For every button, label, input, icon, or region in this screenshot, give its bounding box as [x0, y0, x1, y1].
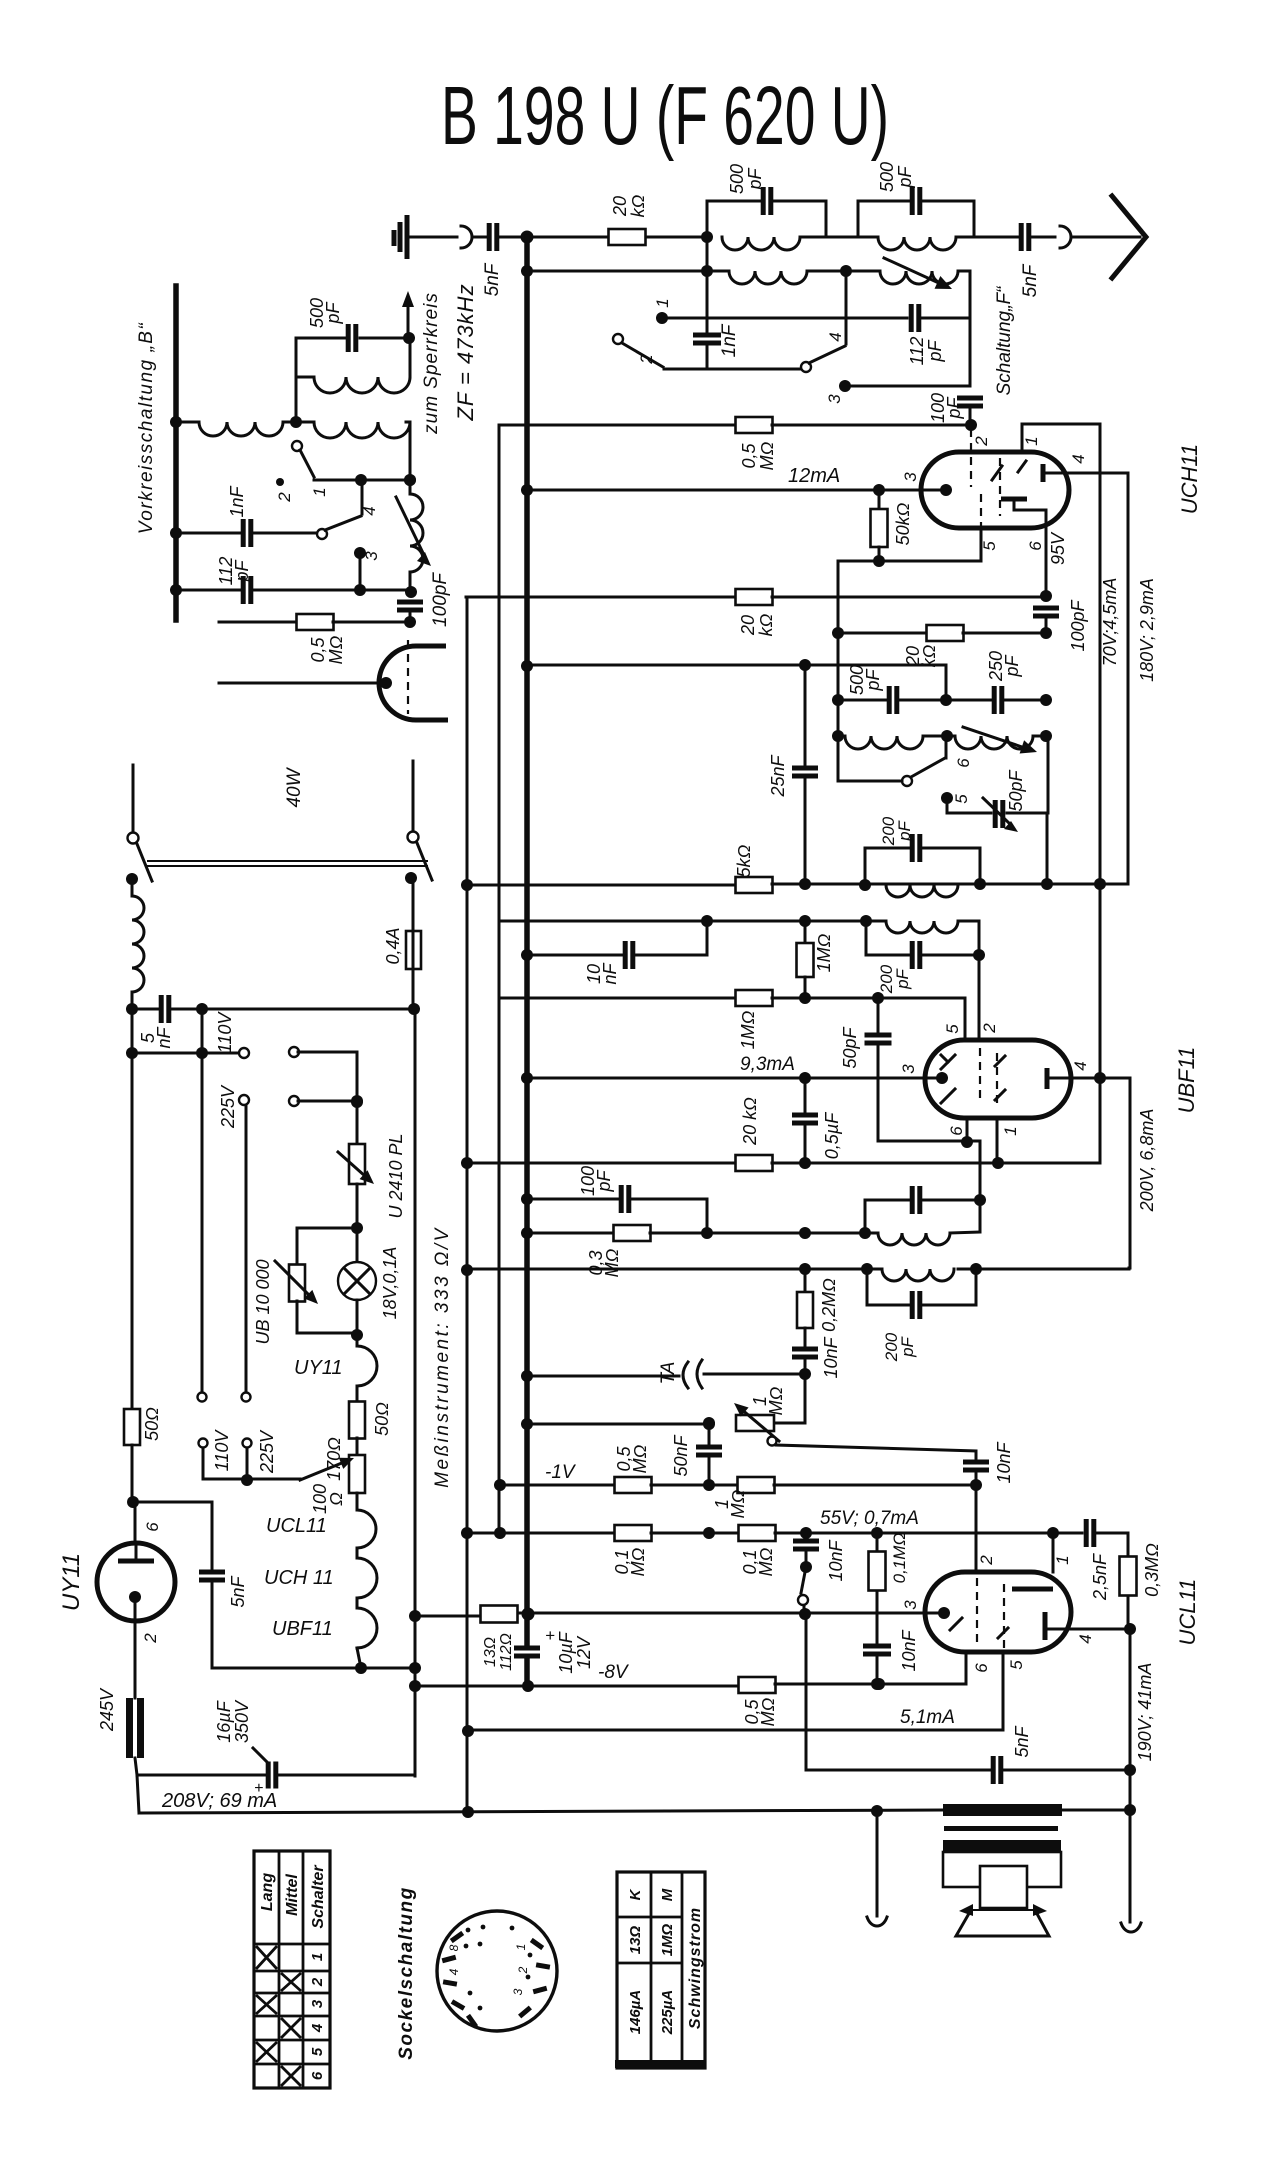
svg-text:pF: pF — [863, 668, 883, 691]
svg-text:16µF: 16µF — [214, 1700, 234, 1742]
svg-text:2,5nF: 2,5nF — [1090, 1553, 1110, 1601]
svg-text:1: 1 — [309, 1953, 326, 1961]
svg-text:Schaltung„F“: Schaltung„F“ — [994, 285, 1015, 395]
svg-text:UCH 11: UCH 11 — [264, 1567, 334, 1589]
svg-text:MΩ: MΩ — [756, 1547, 776, 1576]
svg-text:5nF: 5nF — [482, 262, 503, 296]
svg-text:3: 3 — [309, 1999, 326, 2008]
svg-text:0,1MΩ: 0,1MΩ — [890, 1533, 909, 1584]
svg-text:6: 6 — [143, 1522, 162, 1532]
svg-text:200V, 6,8mA: 200V, 6,8mA — [1137, 1109, 1157, 1213]
svg-text:1MΩ: 1MΩ — [659, 1923, 676, 1956]
svg-text:18V,0,1A: 18V,0,1A — [380, 1247, 400, 1320]
svg-text:12mA: 12mA — [788, 465, 840, 487]
svg-text:MΩ: MΩ — [757, 441, 777, 470]
svg-text:UCL11: UCL11 — [1175, 1579, 1200, 1646]
svg-text:5nF: 5nF — [1012, 1725, 1032, 1757]
svg-text:5kΩ: 5kΩ — [734, 844, 754, 877]
svg-text:112: 112 — [907, 337, 927, 366]
svg-text:0,5µF: 0,5µF — [822, 1112, 842, 1159]
svg-text:2: 2 — [141, 1633, 160, 1644]
svg-text:UCH11: UCH11 — [1177, 444, 1202, 515]
svg-text:pF: pF — [323, 301, 343, 324]
svg-text:20: 20 — [610, 196, 630, 217]
svg-text:70V;4,5mA: 70V;4,5mA — [1100, 578, 1120, 667]
svg-text:MΩ: MΩ — [758, 1697, 778, 1726]
svg-text:4: 4 — [826, 332, 845, 341]
svg-text:225µA: 225µA — [659, 1990, 676, 2036]
svg-text:40W: 40W — [284, 766, 305, 807]
svg-text:4: 4 — [309, 2023, 326, 2033]
svg-text:50pF: 50pF — [1006, 769, 1026, 811]
svg-text:5: 5 — [943, 1024, 962, 1034]
svg-text:95V: 95V — [1048, 531, 1068, 565]
svg-text:MΩ: MΩ — [766, 1386, 786, 1415]
svg-text:0,2MΩ: 0,2MΩ — [819, 1278, 839, 1332]
svg-text:kΩ: kΩ — [756, 613, 776, 636]
svg-text:0,5: 0,5 — [739, 443, 759, 469]
svg-text:3: 3 — [825, 394, 844, 404]
svg-text:+: + — [545, 1626, 555, 1645]
svg-text:245V: 245V — [97, 1687, 117, 1732]
svg-text:B 198 U (F 620 U): B 198 U (F 620 U) — [441, 69, 889, 162]
svg-text:4: 4 — [1076, 1634, 1095, 1643]
svg-text:Ω: Ω — [326, 1492, 346, 1506]
svg-text:0,3MΩ: 0,3MΩ — [1142, 1543, 1162, 1597]
svg-text:1: 1 — [1053, 1555, 1072, 1564]
svg-text:pF: pF — [893, 967, 912, 989]
svg-text:4: 4 — [447, 1968, 461, 1975]
svg-text:5: 5 — [1007, 1660, 1026, 1670]
svg-text:10nF: 10nF — [994, 1441, 1014, 1483]
svg-text:13Ω: 13Ω — [482, 1637, 499, 1667]
svg-text:190V; 41mA: 190V; 41mA — [1135, 1663, 1155, 1762]
svg-text:1: 1 — [514, 1944, 528, 1951]
svg-text:8: 8 — [447, 1944, 461, 1951]
svg-text:3: 3 — [901, 472, 920, 482]
svg-text:2: 2 — [972, 436, 991, 447]
svg-text:10nF: 10nF — [821, 1336, 841, 1378]
svg-text:55V; 0,7mA: 55V; 0,7mA — [820, 1508, 919, 1529]
svg-text:110V: 110V — [212, 1429, 232, 1472]
svg-text:pF: pF — [895, 165, 915, 188]
svg-text:nF: nF — [600, 962, 620, 984]
svg-text:500: 500 — [727, 164, 747, 194]
svg-text:TA: TA — [658, 1362, 679, 1385]
svg-text:UY11: UY11 — [294, 1357, 343, 1379]
svg-text:-1V: -1V — [545, 1462, 577, 1483]
svg-text:Vorkreisschaltung „B“: Vorkreisschaltung „B“ — [136, 322, 157, 535]
svg-text:50nF: 50nF — [671, 1434, 691, 1476]
svg-text:zum Sperrkreis: zum Sperrkreis — [421, 292, 442, 435]
svg-text:MΩ: MΩ — [630, 1444, 650, 1473]
svg-text:MΩ: MΩ — [602, 1248, 622, 1277]
svg-text:pF: pF — [898, 1335, 917, 1357]
svg-text:50Ω: 50Ω — [372, 1402, 392, 1436]
svg-text:pF: pF — [895, 819, 914, 841]
svg-text:Schwingstrom: Schwingstrom — [687, 1907, 704, 2029]
svg-text:kΩ: kΩ — [628, 194, 648, 217]
svg-text:1MΩ: 1MΩ — [814, 933, 834, 972]
svg-text:pF: pF — [232, 559, 252, 582]
svg-text:MΩ: MΩ — [728, 1489, 748, 1518]
svg-text:5nF: 5nF — [228, 1575, 248, 1607]
svg-text:1MΩ: 1MΩ — [738, 1010, 758, 1049]
svg-text:pF: pF — [594, 1169, 614, 1192]
svg-text:1nF: 1nF — [227, 485, 247, 517]
svg-text:pF: pF — [745, 167, 765, 190]
svg-text:pF: pF — [944, 396, 964, 419]
svg-text:UBF11: UBF11 — [272, 1618, 333, 1640]
svg-text:5: 5 — [952, 794, 971, 804]
svg-text:5: 5 — [980, 541, 999, 551]
svg-text:9,3mA: 9,3mA — [740, 1054, 795, 1075]
svg-text:350V: 350V — [232, 1699, 252, 1743]
svg-text:500: 500 — [877, 162, 897, 192]
svg-text:2: 2 — [516, 1966, 530, 1974]
svg-text:5,1mA: 5,1mA — [900, 1707, 955, 1728]
svg-text:Sockelschaltung: Sockelschaltung — [396, 1886, 417, 2060]
svg-text:4: 4 — [360, 506, 379, 515]
svg-text:Lang: Lang — [259, 1873, 276, 1911]
svg-text:6: 6 — [972, 1663, 991, 1673]
svg-text:Meßinstrument: 333 Ω/V: Meßinstrument: 333 Ω/V — [432, 1226, 453, 1488]
svg-text:3: 3 — [511, 1988, 525, 1995]
svg-text:ZF = 473kHz: ZF = 473kHz — [453, 283, 478, 421]
svg-text:UB 10 000: UB 10 000 — [253, 1259, 273, 1344]
svg-text:MΩ: MΩ — [628, 1547, 648, 1576]
svg-text:1: 1 — [653, 298, 672, 307]
svg-text:10nF: 10nF — [826, 1539, 846, 1581]
svg-text:225V: 225V — [257, 1429, 277, 1474]
svg-text:50kΩ: 50kΩ — [893, 502, 913, 545]
svg-text:6: 6 — [1026, 541, 1045, 551]
svg-text:112Ω: 112Ω — [498, 1633, 515, 1671]
svg-text:10nF: 10nF — [899, 1629, 919, 1671]
svg-text:110V: 110V — [215, 1011, 235, 1054]
svg-text:2: 2 — [309, 1977, 326, 1987]
svg-text:2: 2 — [637, 354, 656, 365]
svg-text:20 kΩ: 20 kΩ — [740, 1097, 760, 1146]
svg-text:1: 1 — [310, 487, 329, 496]
svg-text:225V: 225V — [218, 1084, 238, 1129]
svg-text:nF: nF — [154, 1026, 174, 1048]
svg-text:M: M — [659, 1888, 676, 1901]
svg-text:UY11: UY11 — [58, 1553, 85, 1611]
svg-text:180V; 2,9mA: 180V; 2,9mA — [1137, 578, 1157, 682]
svg-text:3: 3 — [901, 1600, 920, 1610]
svg-text:MΩ: MΩ — [326, 635, 346, 664]
svg-text:1: 1 — [1001, 1126, 1020, 1135]
svg-text:K: K — [627, 1888, 644, 1900]
svg-text:0,4A: 0,4A — [383, 927, 403, 964]
svg-text:100pF: 100pF — [1068, 599, 1088, 651]
svg-text:20: 20 — [738, 615, 758, 636]
svg-text:10µF: 10µF — [556, 1631, 576, 1673]
svg-text:50pF: 50pF — [840, 1026, 860, 1068]
svg-text:1: 1 — [1022, 436, 1041, 445]
svg-text:5: 5 — [309, 2047, 326, 2056]
svg-text:4: 4 — [1069, 454, 1088, 463]
svg-text:3: 3 — [899, 1064, 918, 1074]
svg-text:2: 2 — [275, 492, 294, 503]
svg-text:pF: pF — [1002, 654, 1022, 677]
svg-text:0,5: 0,5 — [308, 637, 328, 663]
svg-text:6: 6 — [309, 2071, 326, 2080]
svg-text:pF: pF — [925, 339, 945, 362]
svg-text:5nF: 5nF — [1020, 263, 1041, 297]
svg-text:4: 4 — [1071, 1061, 1090, 1070]
svg-text:3: 3 — [362, 551, 381, 561]
svg-text:2: 2 — [980, 1023, 999, 1034]
svg-text:50Ω: 50Ω — [142, 1407, 162, 1441]
svg-text:208V; 69 mA: 208V; 69 mA — [161, 1790, 277, 1812]
svg-text:25nF: 25nF — [768, 754, 788, 797]
svg-text:6: 6 — [947, 1126, 966, 1136]
svg-text:2: 2 — [977, 1555, 996, 1566]
svg-text:13Ω: 13Ω — [627, 1926, 644, 1955]
svg-text:U 2410 PL: U 2410 PL — [386, 1133, 406, 1218]
svg-text:UBF11: UBF11 — [1174, 1047, 1199, 1114]
svg-text:Mittel: Mittel — [284, 1874, 301, 1916]
svg-text:UCL11: UCL11 — [266, 1515, 327, 1537]
svg-text:12V: 12V — [574, 1635, 594, 1669]
svg-text:146µA: 146µA — [627, 1990, 644, 2035]
svg-text:1nF: 1nF — [719, 323, 740, 357]
svg-text:6: 6 — [954, 758, 973, 768]
svg-text:100pF: 100pF — [430, 572, 451, 627]
svg-text:Schalter: Schalter — [310, 1865, 327, 1929]
svg-text:-8V: -8V — [598, 1662, 630, 1683]
